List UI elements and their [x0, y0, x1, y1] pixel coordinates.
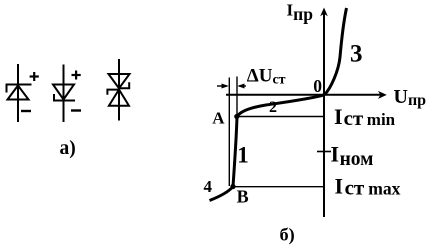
curve segment 1 stabilization branch — [233, 117, 237, 187]
node A dot — [234, 114, 239, 119]
curve segment 2 reverse pre-breakdown branch — [237, 95, 325, 117]
plus label VD2 — [72, 71, 81, 80]
svg-text:3: 3 — [350, 41, 363, 68]
vertical axis arrowhead — [320, 8, 328, 17]
center bar VD3 left half with down tab — [107, 90, 119, 95]
cathode bar VD1 with left tab — [7, 85, 32, 93]
minus label VD1 — [21, 110, 31, 112]
wire lead VD2 — [63, 65, 65, 123]
zener diode VD1 reverse-connected (cathode up) — [7, 64, 32, 122]
svg-text:В: В — [237, 187, 249, 207]
wire lead VD1 — [17, 64, 19, 122]
bidirectional zener diode VD3 (two-anode) — [107, 59, 129, 121]
wire lead VD3 — [118, 59, 120, 121]
center bar VD3 right half with up tab — [119, 82, 130, 88]
node B dot — [230, 184, 235, 189]
horizontal voltage axis — [226, 94, 381, 96]
upper triangle VD3 — [109, 74, 130, 88]
curve segment 4 thermal breakdown branch — [210, 187, 234, 201]
horizontal axis arrowhead — [378, 91, 387, 99]
svg-text:4: 4 — [204, 177, 213, 196]
level line I st max — [235, 186, 324, 188]
svg-text:A: A — [212, 109, 225, 128]
anode triangle VD1 — [8, 86, 29, 100]
lower triangle VD3 — [109, 90, 129, 106]
svg-text:2: 2 — [269, 99, 277, 116]
cathode bar VD2 with left tab up — [54, 94, 75, 101]
svg-text:б): б) — [280, 224, 295, 245]
vertical current axis — [323, 12, 325, 217]
svg-text:1: 1 — [237, 142, 249, 167]
svg-text:а): а) — [60, 138, 76, 159]
dimension line right of delta U st — [236, 77, 238, 117]
plus label VD1 — [30, 72, 39, 81]
level line I st min — [237, 116, 324, 118]
curve segment 3 forward branch — [325, 8, 347, 95]
tick I nom on axis — [317, 151, 331, 153]
dimension line left of delta U st — [228, 78, 230, 187]
dimension arrow left — [217, 84, 229, 89]
zener diode VD2 forward-connected (anode up) — [53, 65, 75, 123]
minus label VD2 — [71, 109, 81, 111]
dimension arrow right — [237, 84, 246, 89]
anode triangle VD2 — [53, 85, 74, 100]
svg-text:0: 0 — [313, 76, 322, 96]
